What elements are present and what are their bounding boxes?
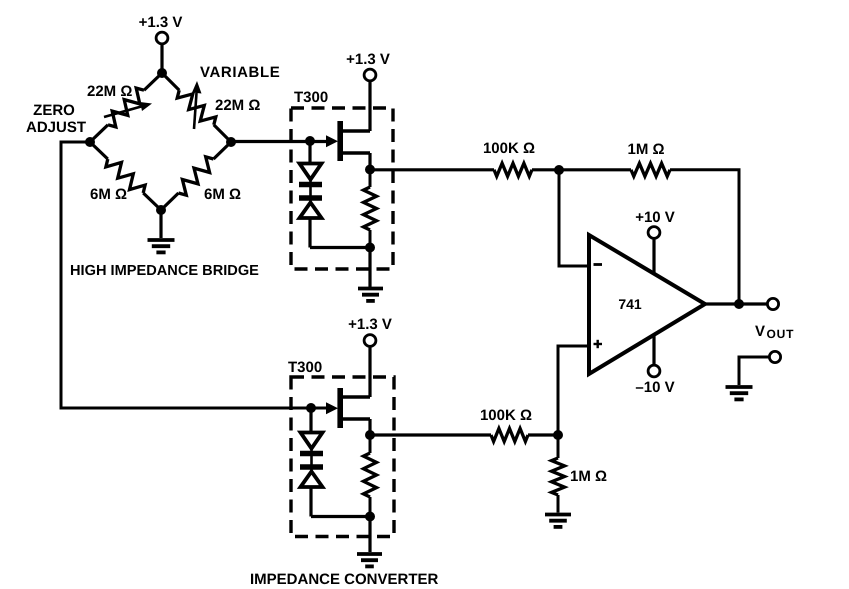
node bridge left — [85, 137, 95, 147]
label 1M (lower) — [570, 468, 607, 485]
wire bottom rail (lower T300) — [311, 515, 370, 518]
label 741 — [618, 296, 642, 312]
power terminal -10V — [648, 365, 660, 377]
wire 1M to output node — [670, 170, 739, 304]
node Q1 gate junction — [305, 136, 315, 146]
svg-text:100K Ω: 100K Ω — [483, 140, 535, 157]
wire op-amp output — [705, 302, 767, 305]
resistor 22M (bridge upper-left arm) — [90, 73, 162, 142]
svg-text:HIGH IMPEDANCE BRIDGE: HIGH IMPEDANCE BRIDGE — [70, 263, 259, 279]
node bridge bottom — [156, 205, 166, 215]
node summing junction (inverting) — [554, 165, 564, 175]
label T300 (lower) — [288, 359, 322, 376]
op-amp inverting input '-' mark — [594, 263, 603, 266]
svg-text:IMPEDANCE CONVERTER: IMPEDANCE CONVERTER — [250, 571, 439, 588]
svg-text:+1.3 V: +1.3 V — [346, 51, 390, 68]
ground (output return) — [726, 387, 753, 399]
ground (upper T300) — [358, 289, 383, 301]
label 6M (lower-left) — [90, 186, 127, 203]
terminal output return — [769, 351, 780, 362]
T300 converter box 1 (dashed) — [291, 108, 393, 269]
transistor Q1 (T300 MOSFET) — [326, 121, 370, 161]
resistor source load (upper T300) — [364, 170, 377, 248]
op-amp U1 741 — [589, 235, 705, 374]
label 6M (lower-right) — [204, 186, 241, 203]
resistor 22M variable (bridge upper-right arm) — [162, 73, 231, 142]
svg-text:1M Ω: 1M Ω — [570, 468, 607, 485]
node output junction — [734, 299, 744, 309]
wire upper rail to ground — [368, 248, 371, 288]
diode D2 (lower, anode down) — [299, 198, 322, 218]
label +1.3 V (lower T300 supply) — [348, 316, 392, 333]
wire 100K to summing junction — [532, 168, 559, 171]
wire zero-adjust: bridge left node to Q2 gate — [61, 142, 327, 408]
ground (bridge) — [148, 240, 175, 252]
svg-text:100K Ω: 100K Ω — [480, 407, 532, 424]
label -10 V — [635, 379, 674, 396]
power terminal +1.3V (lower T300) — [364, 335, 376, 347]
svg-text:ZERO: ZERO — [33, 102, 75, 119]
resistor 100K (input, lower) — [491, 429, 528, 442]
label 100K (upper) — [483, 140, 535, 157]
wire +1.3V to Q2 drain — [368, 347, 371, 398]
svg-text:22M Ω: 22M Ω — [87, 83, 132, 100]
wire gate junction to diode D3 — [309, 408, 313, 472]
svg-text:+1.3 V: +1.3 V — [348, 316, 392, 333]
wire Q2 source down — [368, 419, 371, 435]
label +10 V — [635, 209, 675, 226]
svg-text:1M Ω: 1M Ω — [627, 141, 664, 158]
wire Q1 output to 100K — [370, 168, 494, 171]
svg-text:6M Ω: 6M Ω — [204, 186, 241, 203]
wire +1.3V to Q1 drain — [368, 81, 371, 131]
arrow variable adjust (upper-right arm) — [192, 81, 202, 129]
label 100K (lower) — [480, 407, 532, 424]
power terminal +1.3V (upper T300) — [364, 69, 376, 81]
svg-text:T300: T300 — [294, 89, 328, 106]
svg-text:T300: T300 — [288, 359, 322, 376]
resistor 100K (input, upper) — [494, 163, 532, 176]
wire summing junction to inverting input — [559, 170, 588, 266]
diode D4 (lower, anode down) — [300, 467, 323, 487]
wire Q1 source down — [368, 153, 371, 169]
wire diode stack to bottom rail (lower) — [309, 487, 312, 517]
transistor Q2 (T300 MOSFET) — [326, 388, 370, 428]
wire Q2 output to 100K — [370, 433, 491, 436]
svg-text:6M Ω: 6M Ω — [90, 186, 127, 203]
label +1.3 V (bridge supply) — [139, 14, 183, 31]
label T300 (upper) — [294, 89, 328, 106]
node Q2 source output — [365, 430, 375, 440]
arrow variable adjust (upper-left arm) — [104, 102, 152, 117]
wire lower rail to ground — [368, 517, 371, 553]
svg-text:ADJUST: ADJUST — [26, 119, 86, 136]
wire bottom rail (upper T300) — [310, 246, 370, 249]
resistor 6M (bridge lower-left arm) — [90, 142, 161, 210]
label 22M (upper-right) — [215, 97, 260, 114]
power terminal +1.3V (bridge) — [156, 32, 168, 44]
svg-text:V: V — [755, 323, 765, 340]
wire junction to non-inverting input — [558, 346, 588, 435]
resistor 1M (to ground) — [552, 435, 565, 513]
ground (lower T300) — [357, 554, 382, 566]
wire return terminal to ground — [739, 357, 769, 385]
wire bridge right node to Q1 gate — [231, 140, 327, 143]
node Q2 gate junction — [306, 403, 316, 413]
svg-text:741: 741 — [618, 296, 642, 312]
wire gate junction to diode D1 — [308, 141, 312, 203]
label IMPEDANCE CONVERTER — [250, 571, 439, 588]
label HIGH IMPEDANCE BRIDGE — [70, 263, 259, 279]
diode D3 (upper, anode up) — [300, 433, 323, 454]
diode D1 (upper, anode up) — [299, 164, 322, 185]
node Q1 source output — [365, 165, 375, 175]
label VOUT — [755, 323, 794, 341]
terminal VOUT — [767, 298, 778, 309]
wire diode stack to bottom rail (upper) — [308, 218, 311, 248]
wire +10V to op-amp — [652, 239, 655, 275]
wire op-amp to -10V — [652, 335, 655, 365]
ground (1M return) — [545, 515, 571, 527]
wire +1.3V terminal to bridge top node — [160, 44, 163, 73]
wire bridge bottom to ground — [159, 210, 162, 238]
node upper T300 bottom rail — [365, 243, 375, 253]
svg-text:OUT: OUT — [767, 327, 795, 341]
resistor source load (lower T300) — [364, 435, 377, 517]
label 22M (upper-left) — [87, 83, 132, 100]
svg-text:22M Ω: 22M Ω — [215, 97, 260, 114]
T300 converter box 2 (dashed) — [291, 377, 394, 537]
label ZERO ADJUST — [26, 102, 86, 136]
node lower T300 bottom rail — [365, 512, 375, 522]
node bridge right — [226, 137, 236, 147]
label VARIABLE — [200, 64, 280, 81]
svg-text:VARIABLE: VARIABLE — [200, 64, 280, 81]
svg-text:+10 V: +10 V — [635, 209, 675, 226]
node bridge top — [157, 68, 167, 78]
op-amp non-inverting input '+' mark — [594, 340, 603, 348]
resistor 6M (bridge lower-right arm) — [161, 142, 231, 210]
svg-text:+1.3 V: +1.3 V — [139, 14, 183, 31]
node non-inverting junction — [553, 430, 563, 440]
label +1.3 V (upper T300 supply) — [346, 51, 390, 68]
power terminal +10V — [648, 227, 660, 239]
wire 100K to non-inverting junction — [528, 433, 558, 436]
resistor 1M (feedback) — [631, 163, 670, 176]
label 1M (feedback) — [627, 141, 664, 158]
wire junction to 1M — [559, 168, 631, 171]
svg-text:–10 V: –10 V — [635, 379, 674, 396]
